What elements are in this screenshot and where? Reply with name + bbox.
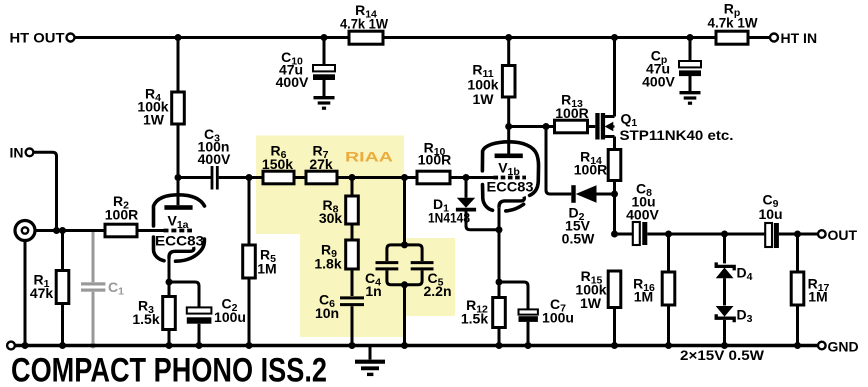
resistor R10 (417, 140, 451, 184)
resistor R14 (source, 100R) (574, 149, 621, 235)
resistor R6 (262, 143, 294, 184)
node: ground rail / C2 (196, 342, 203, 349)
node: V1b cathode / R12 / C7 (496, 279, 503, 286)
terminal GND (818, 339, 859, 355)
wire: IN to input node (34, 152, 57, 230)
svg-text:400V: 400V (642, 74, 675, 90)
svg-text:1M: 1M (634, 289, 653, 305)
wire: HT rail (75, 36, 770, 39)
svg-text:1W: 1W (473, 91, 495, 107)
node: C4-C5 top (401, 174, 408, 181)
node: output / D4 top (721, 231, 728, 238)
svg-text:4.7k 1W: 4.7k 1W (708, 15, 759, 31)
svg-text:100u: 100u (214, 309, 246, 325)
svg-text:150k: 150k (262, 156, 293, 172)
ground (Cp) (680, 93, 701, 104)
RIAA network highlight (256, 136, 455, 338)
node: ground rail / R5 (246, 342, 253, 349)
node: C4-C5 split top (401, 241, 408, 248)
svg-text:1W: 1W (580, 295, 602, 311)
terminal OUT (818, 227, 858, 243)
ground (C10) (314, 98, 335, 109)
svg-text:30k: 30k (319, 210, 343, 226)
terminal HT IN (770, 30, 817, 46)
svg-text:ECC83: ECC83 (155, 233, 204, 249)
svg-text:2×15V 0.5W: 2×15V 0.5W (680, 347, 765, 363)
svg-text:1M: 1M (257, 261, 276, 277)
svg-text:4.7k 1W: 4.7k 1W (340, 16, 389, 32)
node: R14 / D2 / source column (611, 191, 618, 198)
node: ground rail / jack shell (22, 342, 29, 349)
capacitor C8 (626, 181, 659, 246)
node: R11 / R13 / V1b plate (505, 123, 512, 130)
svg-text:RIAA: RIAA (345, 149, 393, 165)
capacitor Cp (642, 38, 701, 92)
svg-text:100R: 100R (574, 162, 607, 178)
svg-text:1.5k: 1.5k (461, 311, 488, 327)
svg-text:100R: 100R (555, 105, 588, 121)
input jack (15, 221, 35, 346)
node: V1a plate / C3 (175, 174, 182, 181)
node: C4-C5 split bottom (401, 281, 408, 288)
svg-text:400V: 400V (276, 74, 309, 90)
resistor R5 (243, 178, 277, 346)
resistor R14 (HT dropper) (340, 2, 389, 44)
diode D4 (zener) (716, 234, 753, 306)
capacitor C7 (499, 282, 574, 346)
tube V1a ECC83 (137, 178, 205, 283)
wire: input node (35, 229, 105, 232)
node: ground rail / R17 (794, 342, 801, 349)
terminal IN (10, 145, 34, 161)
capacitor C9 (758, 192, 782, 249)
node: ground rail / C4-C5 (401, 342, 408, 349)
node: V1a cathode / R3 / C2 (166, 279, 173, 286)
node: V1b cathode / D1 (496, 226, 503, 233)
svg-text:IN: IN (10, 145, 24, 161)
diode D3 (zener) (716, 306, 753, 346)
node: R10 / D1 / V1b grid (463, 174, 470, 181)
wire: RIAA net (178, 176, 466, 179)
svg-text:100u: 100u (542, 310, 574, 326)
svg-text:10n: 10n (315, 305, 339, 321)
capacitor C10 (276, 38, 335, 97)
terminal ground left (7, 342, 15, 350)
wire: output net (615, 233, 819, 236)
node: R13 wire / D2 branch (543, 123, 550, 130)
resistor R11 (467, 38, 515, 127)
svg-text:1.5k: 1.5k (132, 311, 159, 327)
node: output / R16 top (665, 231, 672, 238)
resistor R7 (306, 143, 337, 184)
node: ground rail / C7 (525, 342, 532, 349)
capacitor C2 (169, 282, 246, 346)
resistor R2 (105, 193, 138, 237)
ground (main) (355, 346, 385, 375)
node: input / R1 top (59, 227, 66, 234)
resistor R12 (461, 282, 505, 346)
svg-text:1W: 1W (143, 112, 165, 128)
svg-text:1n: 1n (365, 283, 381, 299)
svg-text:400V: 400V (626, 207, 659, 223)
capacitor C5 (405, 263, 452, 346)
svg-text:10u: 10u (758, 206, 782, 222)
node: HT rail / R4 (175, 34, 182, 41)
svg-text:2.2n: 2.2n (423, 283, 451, 299)
capacitor C4 (365, 178, 422, 300)
node: ground rail / R12 (496, 342, 503, 349)
node: R5 top (246, 174, 253, 181)
node: HT rail / Q1 drain (611, 34, 618, 41)
node: HT rail / C10 (321, 34, 328, 41)
capacitor C6 (315, 292, 364, 346)
svg-text:400V: 400V (198, 151, 231, 167)
svg-text:100R: 100R (418, 152, 451, 168)
node: R8 top (349, 174, 356, 181)
resistor R4 (137, 38, 184, 178)
svg-text:47k: 47k (30, 285, 54, 301)
node: ground rail / R3 (166, 342, 173, 349)
resistor R9 (314, 240, 358, 296)
svg-text:1N4148: 1N4148 (428, 210, 470, 226)
svg-text:HT IN: HT IN (781, 30, 818, 46)
transistor Q1 (MOSFET) (595, 38, 733, 150)
svg-text:27k: 27k (309, 156, 333, 172)
resistor R8 (319, 178, 358, 241)
resistor R17 (791, 234, 829, 346)
capacitor C3 (198, 126, 231, 190)
label 2x15V (680, 347, 765, 363)
svg-text:1.8k: 1.8k (314, 256, 341, 272)
wire: plate V1b to R13 and D2 branch (509, 127, 596, 195)
node: ground rail / R16 (665, 342, 672, 349)
svg-text:1M: 1M (808, 289, 827, 305)
resistor R13 (555, 92, 589, 133)
node: ground rail / C6 (349, 342, 356, 349)
resistor R1 (30, 231, 69, 346)
svg-text:ECC83: ECC83 (487, 179, 534, 195)
node: ground rail / R1 (59, 342, 66, 349)
tube V1b ECC83 (466, 127, 539, 283)
svg-text:HT OUT: HT OUT (10, 30, 65, 46)
wire: ground rail (15, 344, 818, 347)
RIAA label (345, 149, 393, 165)
resistor R15 (575, 268, 620, 346)
terminal HT OUT (10, 30, 75, 46)
node: HT rail / R11 (505, 34, 512, 41)
svg-text:100R: 100R (105, 207, 138, 223)
svg-text:STP11NK40 etc.: STP11NK40 etc. (620, 127, 734, 143)
resistor R16 (633, 234, 675, 346)
node: ground rail / R15 (611, 342, 618, 349)
node: HT rail / Cp (687, 34, 694, 41)
svg-text:GND: GND (828, 339, 859, 355)
svg-text:COMPACT PHONO ISS.2: COMPACT PHONO ISS.2 (11, 352, 327, 387)
svg-text:OUT: OUT (828, 227, 858, 243)
node: source column / C8 / R15 (611, 231, 618, 238)
title COMPACT PHONO ISS.2 (11, 352, 327, 387)
diode D1 1N4148 (428, 178, 499, 230)
diode D2 (zener 15V) (562, 185, 615, 246)
capacitor C1 (ghost, gray) (81, 232, 124, 349)
resistor R3 (132, 282, 175, 346)
node: input / IN wire (53, 227, 60, 234)
resistor Rp (708, 1, 759, 45)
node: output / R17 top (794, 231, 801, 238)
node: ground rail / D3 (721, 342, 728, 349)
svg-text:0.5W: 0.5W (562, 231, 595, 247)
